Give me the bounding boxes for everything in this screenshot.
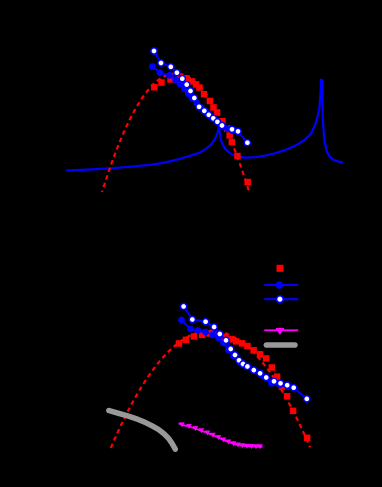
bottom panel: gray thick theory curve xyxy=(109,411,176,450)
bottom panel: blue filled-circle series connecting line xyxy=(182,320,288,387)
bottom panel: red dashed parabola xyxy=(111,331,310,448)
legend: red square entry xyxy=(277,265,284,272)
top panel: red square data series xyxy=(151,73,251,185)
top panel: blue filled-circle markers xyxy=(149,63,236,134)
top panel: open-circle series connecting line xyxy=(154,51,247,143)
legend: blue line with filled circle entry xyxy=(264,281,298,289)
bottom panel: red square data series xyxy=(176,330,311,441)
bottom panel: open (white-filled) circle markers xyxy=(181,303,310,402)
top panel: blue susceptibility curve with cusp and tall resonance spike xyxy=(67,80,342,171)
bottom panel: magenta down-triangle markers xyxy=(179,422,263,449)
top panel: blue filled-circle series connecting line xyxy=(153,67,233,131)
bottom panel: blue filled-circle markers xyxy=(178,317,291,390)
legend: gray thick line entry xyxy=(266,342,295,348)
bottom panel: open-circle series connecting line xyxy=(184,307,307,399)
top panel: red dashed parabola xyxy=(102,73,250,193)
bottom panel: magenta series connecting line xyxy=(179,423,263,447)
legend: magenta line with down-triangle entry xyxy=(264,328,298,335)
legend: blue line with open circle entry xyxy=(264,296,298,303)
top panel: open (white-filled) circle markers xyxy=(151,48,251,146)
